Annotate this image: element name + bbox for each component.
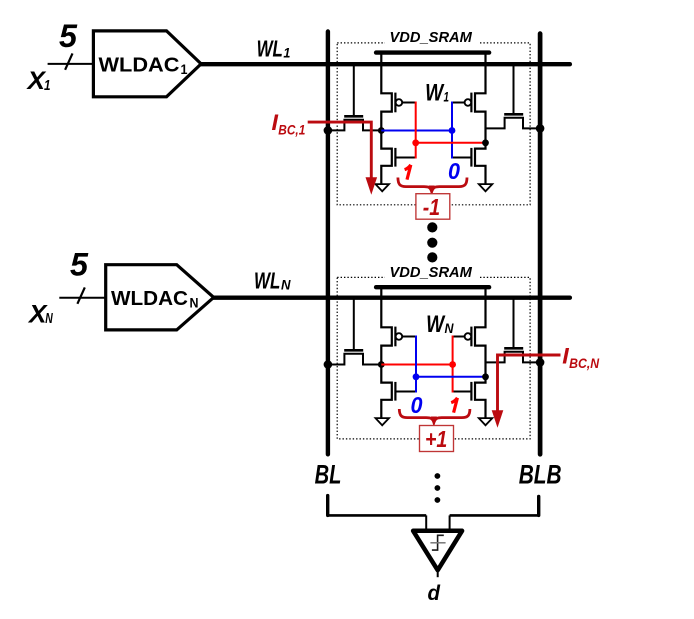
svg-text:WLDAC: WLDAC xyxy=(99,55,180,77)
svg-text:WL: WL xyxy=(257,35,283,61)
ground L (cell N) xyxy=(376,418,390,425)
svg-text:5: 5 xyxy=(59,18,78,54)
ground R (cell N) xyxy=(479,418,493,425)
NMOS L gate bar (cell 1) xyxy=(394,148,396,167)
storage node Q dot (cell 1) xyxy=(378,127,385,134)
junction dot on BLB (cell N) xyxy=(536,358,545,367)
NMOS R gate lead (cell N) xyxy=(453,391,471,393)
svg-text:d: d xyxy=(428,582,442,605)
WLDACN block xyxy=(106,265,214,330)
cell N dotted boundary xyxy=(337,277,530,439)
svg-text:1: 1 xyxy=(283,44,290,60)
wordline WL1 xyxy=(201,62,570,66)
NMOS R gate lead (cell 1) xyxy=(452,157,471,159)
PMOS R gate lead (cell 1) xyxy=(452,102,465,104)
bracket horizontal wire xyxy=(328,514,427,517)
svg-text:0: 0 xyxy=(411,392,423,418)
svg-text:VDD_SRAM: VDD_SRAM xyxy=(390,265,473,281)
arrowhead I_BC,N xyxy=(492,410,504,428)
svg-text:BC,1: BC,1 xyxy=(278,122,305,138)
junction dot on BLB (cell 1) xyxy=(536,124,545,133)
comparator triangle xyxy=(413,531,462,570)
cross wire red vertical (cell N) xyxy=(452,336,454,393)
svg-text:WL: WL xyxy=(254,268,280,294)
junction dot on BL (cell N) xyxy=(324,360,333,369)
access L gate bar (cell 1) xyxy=(344,115,363,118)
comparator input stub right xyxy=(449,515,451,531)
access R gate wire (cell 1) xyxy=(513,64,515,113)
comparator output stub xyxy=(437,570,439,577)
svg-text:N: N xyxy=(281,277,291,293)
access L gate wire (cell N) xyxy=(353,298,355,350)
PMOS L gate bubble (cell N) xyxy=(396,333,403,340)
weight box -1 (cell 1) xyxy=(416,194,450,220)
svg-text:N: N xyxy=(190,294,199,310)
NMOS L gate lead (cell 1) xyxy=(396,157,416,159)
cell 1 dotted gap for VDD label xyxy=(385,41,478,45)
PMOS R gate lead (cell N) xyxy=(453,336,465,338)
cell 1 dotted boundary xyxy=(337,43,530,205)
inverter L source-drain rail (cell 1) xyxy=(381,53,392,185)
svg-text:-1: -1 xyxy=(423,194,440,220)
current wire I_BC,N xyxy=(498,355,561,411)
svg-text:N: N xyxy=(45,310,53,327)
access R gate wire (cell N) xyxy=(513,298,515,348)
access L gate wire (cell 1) xyxy=(353,64,355,115)
blue junction dot (cell 1) xyxy=(449,127,456,134)
access R channel and leads (cell 1) xyxy=(486,118,541,129)
WLDAC1 block xyxy=(93,31,201,97)
stored 1 label (cell N) xyxy=(451,398,457,413)
cross wire blue vertical (cell 1) xyxy=(451,102,453,159)
PMOS L gate lead (cell 1) xyxy=(402,102,416,104)
svg-text:1: 1 xyxy=(444,88,450,104)
svg-text:VDD_SRAM: VDD_SRAM xyxy=(390,30,473,46)
access L channel and leads (cell 1) xyxy=(328,120,381,131)
arrowhead I_BC,1 xyxy=(366,177,378,195)
PMOS L gate lead (cell N) xyxy=(402,336,416,338)
red junction dot (cell N) xyxy=(449,361,456,368)
svg-text:WLDAC: WLDAC xyxy=(111,288,188,310)
storage wire Q red (cell N) xyxy=(381,364,452,366)
svg-text:5: 5 xyxy=(70,247,89,283)
inverter R source-drain rail (cell 1) xyxy=(475,53,486,185)
red junction dot (cell 1) xyxy=(412,139,419,146)
VDD rail (cell 1) xyxy=(376,50,489,54)
comparator input stub left xyxy=(425,515,427,531)
PMOS L gate bar (cell 1) xyxy=(394,93,396,113)
PMOS R gate bubble (cell N) xyxy=(465,333,472,340)
bus slash (row 1) xyxy=(65,53,72,69)
cross wire red vertical (cell 1) xyxy=(415,102,417,159)
access R gate bar (cell N) xyxy=(504,347,523,350)
hysteresis middle line xyxy=(430,542,445,544)
storage node QB dot (cell N) xyxy=(482,373,489,380)
VDD rail (cell N) xyxy=(376,285,489,289)
dots between cells xyxy=(427,222,437,232)
brace tick (cell 1) xyxy=(429,186,434,192)
access R gate bar (cell 1) xyxy=(504,113,523,116)
storage wire QB blue (cell N) xyxy=(416,376,486,378)
svg-text:1: 1 xyxy=(44,77,51,94)
NMOS R gate bar (cell 1) xyxy=(470,148,472,167)
access L channel and leads (cell N) xyxy=(328,354,381,365)
access L gate bar (cell N) xyxy=(344,349,363,352)
BL bracket vertical xyxy=(326,496,329,516)
PMOS L gate bar (cell N) xyxy=(394,327,396,347)
bitline BL xyxy=(326,32,330,455)
svg-text:+1: +1 xyxy=(425,426,447,452)
access R channel and leads (cell N) xyxy=(486,352,541,363)
cross wire blue vertical (cell N) xyxy=(415,336,417,393)
NMOS L gate bar (cell N) xyxy=(394,382,396,401)
storage wire QB red (cell 1) xyxy=(416,142,486,144)
cell N dotted gap for VDD label xyxy=(385,275,478,279)
stored 1 label (cell 1) xyxy=(405,165,411,180)
ground L (cell 1) xyxy=(376,184,390,191)
svg-text:1: 1 xyxy=(181,61,188,77)
BLB bracket vertical xyxy=(537,497,540,516)
input wire XN xyxy=(59,297,105,299)
svg-text:0: 0 xyxy=(448,158,460,184)
bracket horizontal wire right xyxy=(450,514,539,517)
wordline WLN xyxy=(214,296,570,300)
blue junction dot (cell N) xyxy=(413,373,420,380)
brace (cell 1) xyxy=(398,178,467,192)
ellipsis dots above comparator xyxy=(435,473,441,479)
PMOS R gate bar (cell 1) xyxy=(470,93,472,113)
inverter L source-drain rail (cell N) xyxy=(381,287,392,418)
brace (cell N) xyxy=(399,409,470,423)
inverter R source-drain rail (cell N) xyxy=(475,287,486,418)
current wire I_BC,1 xyxy=(308,122,372,178)
PMOS R gate bubble (cell 1) xyxy=(465,99,472,106)
storage node QB dot (cell 1) xyxy=(482,139,489,146)
input wire X1 xyxy=(48,63,94,65)
ground R (cell 1) xyxy=(479,184,493,191)
storage wire Q blue (cell 1) xyxy=(381,130,452,132)
svg-text:W: W xyxy=(425,80,445,107)
bitline BLB xyxy=(538,34,543,455)
hysteresis symbol xyxy=(432,535,444,550)
PMOS R gate bar (cell N) xyxy=(470,327,472,347)
NMOS R gate bar (cell N) xyxy=(470,382,472,401)
junction dot on BL (cell 1) xyxy=(324,126,333,135)
svg-text:BL: BL xyxy=(315,460,342,490)
brace tick (cell N) xyxy=(431,417,436,423)
svg-text:N: N xyxy=(445,320,455,336)
storage node Q dot (cell N) xyxy=(378,361,385,368)
svg-text:BC,N: BC,N xyxy=(569,355,600,371)
weight box +1 (cell N) xyxy=(420,426,454,452)
NMOS L gate lead (cell N) xyxy=(396,391,416,393)
bus slash (row N) xyxy=(77,287,84,303)
svg-text:W: W xyxy=(426,311,446,338)
svg-text:BLB: BLB xyxy=(519,460,562,490)
PMOS L gate bubble (cell 1) xyxy=(396,99,403,106)
